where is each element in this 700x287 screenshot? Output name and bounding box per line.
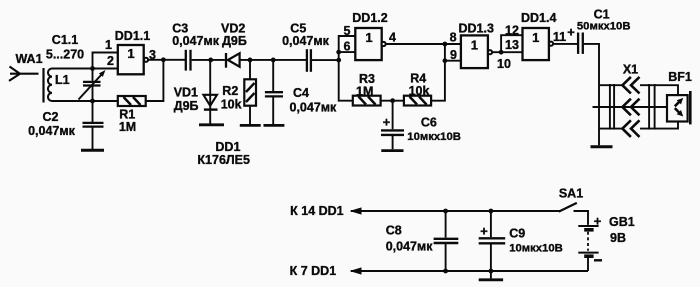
node C8 top	[443, 209, 448, 214]
capacitor C1	[578, 33, 583, 54]
node pin6	[336, 50, 341, 55]
svg-text:1М: 1М	[119, 120, 136, 134]
op-amp gate DD1.4	[523, 28, 554, 60]
arrow K7	[350, 267, 362, 274]
resistor R1	[118, 96, 146, 106]
X1 bars right	[648, 84, 650, 130]
ground below C2	[81, 149, 104, 152]
wire tank bottom	[52, 100, 118, 102]
svg-text:11: 11	[553, 30, 566, 44]
node C4 tap	[271, 58, 276, 63]
ferrite rod of L1	[42, 68, 44, 103]
resistor R3	[353, 96, 381, 106]
wire R3 to R4	[381, 100, 404, 102]
node pin13	[499, 50, 504, 55]
wire DD1.4 output	[553, 43, 577, 45]
power rail top	[351, 210, 560, 212]
op-amp gate DD1.3	[461, 35, 492, 68]
power rail bottom	[351, 270, 588, 272]
wire pin8	[445, 43, 461, 45]
wire C5 to DD1.2	[312, 59, 339, 61]
svg-text:R2: R2	[222, 84, 238, 98]
svg-text:0,047мк: 0,047мк	[290, 101, 338, 115]
wire pin1 riser	[93, 53, 118, 69]
X1 bars left	[609, 84, 611, 130]
wire X1 row top right	[640, 85, 678, 95]
svg-text:К176ЛЕ5: К176ЛЕ5	[197, 153, 250, 167]
svg-text:1М: 1М	[356, 85, 373, 99]
svg-text:4: 4	[389, 30, 396, 44]
svg-text:C4: C4	[293, 86, 309, 100]
battery GB1	[578, 226, 598, 271]
svg-text:1: 1	[532, 30, 539, 45]
op-amp gate DD1.2	[355, 28, 385, 60]
wire X1 row bottom right	[640, 122, 678, 129]
svg-text:0,047мк: 0,047мк	[282, 34, 330, 48]
capacitor C4	[265, 60, 283, 124]
wire riser down	[92, 69, 94, 81]
switch SA1	[559, 203, 588, 225]
node VD1 tap	[208, 58, 213, 63]
wire R4 right riser	[431, 44, 445, 101]
svg-text:50мкх10В: 50мкх10В	[577, 21, 631, 33]
wire VD2 to C5	[240, 59, 306, 61]
diode VD1	[203, 60, 217, 124]
svg-text:+: +	[383, 115, 391, 130]
wire pin9	[445, 60, 461, 62]
X1 chevrons top	[622, 77, 639, 94]
svg-text:C6: C6	[421, 116, 437, 130]
svg-text:C2: C2	[43, 110, 59, 124]
capacitor C6	[381, 101, 404, 150]
svg-text:DD1: DD1	[215, 140, 240, 154]
node C9 top	[489, 209, 494, 214]
wire pin2	[93, 68, 118, 70]
wire DD1.3 output	[492, 51, 522, 53]
svg-text:12: 12	[505, 23, 519, 37]
node C6 tap	[390, 98, 395, 103]
svg-text:C1: C1	[594, 8, 610, 22]
svg-text:10мкх10В: 10мкх10В	[407, 131, 461, 143]
svg-text:2: 2	[107, 54, 114, 68]
X1 chevrons bottom	[622, 120, 639, 137]
resistor R4	[404, 96, 431, 106]
diode VD2	[226, 53, 240, 68]
capacitor C5	[307, 49, 311, 72]
svg-text:DD1.2: DD1.2	[352, 11, 387, 25]
svg-text:К 7 DD1: К 7 DD1	[290, 264, 337, 278]
node output DD1.1	[161, 57, 166, 62]
svg-text:5...270: 5...270	[46, 47, 84, 61]
wire C2 to ground	[92, 127, 94, 149]
svg-text:5: 5	[344, 24, 351, 38]
ground below C6	[381, 149, 403, 152]
wire pin 6	[339, 51, 356, 53]
svg-text:9: 9	[450, 48, 457, 62]
ground below C9	[479, 278, 503, 281]
svg-text:9В: 9В	[610, 231, 626, 245]
svg-text:1: 1	[105, 38, 112, 52]
svg-text:8: 8	[450, 31, 457, 45]
wire R1 right to output node	[146, 60, 164, 101]
svg-text:10: 10	[497, 57, 511, 71]
svg-text:X1: X1	[623, 63, 638, 77]
capacitor C8	[434, 211, 459, 271]
node pin9	[443, 58, 448, 63]
svg-text:BF1: BF1	[668, 70, 692, 84]
ground below X1	[591, 145, 613, 148]
svg-text:C8: C8	[386, 224, 402, 238]
svg-text:+: +	[594, 214, 602, 229]
wire riser mid	[92, 86, 94, 102]
wire DD1.2 input riser	[339, 36, 356, 101]
wire X1 row top left	[599, 84, 622, 86]
svg-text:13: 13	[505, 38, 519, 52]
svg-text:1: 1	[471, 37, 478, 52]
svg-text:VD1: VD1	[174, 86, 198, 100]
wire X1 row mid	[593, 106, 668, 108]
svg-text:0,047мк: 0,047мк	[28, 124, 76, 138]
wire tank top	[52, 68, 93, 70]
earphone BF1	[667, 91, 690, 124]
wire C1 to X1	[584, 44, 599, 145]
wire to C2	[92, 101, 94, 122]
wire C3 to VD2	[192, 59, 225, 61]
svg-text:0,047мк: 0,047мк	[386, 240, 434, 254]
capacitor C9	[479, 211, 506, 278]
X1 chevrons mid	[622, 99, 639, 116]
svg-text:+: +	[567, 25, 575, 40]
svg-text:WA1: WA1	[15, 52, 42, 66]
svg-text:L1: L1	[55, 73, 70, 87]
arrow K14	[350, 207, 362, 214]
svg-text:10мкх10В: 10мкх10В	[509, 243, 563, 255]
svg-text:DD1.4: DD1.4	[521, 11, 556, 25]
svg-text:GB1: GB1	[609, 215, 635, 229]
wire X1 row bottom left	[599, 128, 622, 130]
resistor R2	[244, 60, 256, 124]
minus GB1	[594, 259, 602, 261]
wire DD1.1 output	[148, 59, 185, 61]
node tank top	[90, 66, 95, 71]
capacitor C2	[83, 123, 104, 127]
svg-text:+: +	[480, 223, 488, 238]
svg-text:C9: C9	[509, 226, 525, 240]
capacitor C3	[186, 50, 191, 71]
antenna WA1	[9, 67, 39, 81]
svg-text:C1.1: C1.1	[52, 33, 78, 47]
svg-text:0,047мк: 0,047мк	[172, 34, 220, 48]
svg-text:Д9Б: Д9Б	[222, 34, 247, 48]
op-amp gate DD1.1	[118, 45, 148, 74]
node tank bottom	[90, 99, 95, 104]
svg-text:Д9Б: Д9Б	[174, 99, 199, 113]
node R2 tap	[248, 58, 253, 63]
svg-text:6: 6	[344, 40, 351, 54]
node C9 bottom	[489, 269, 494, 274]
svg-text:10k: 10k	[221, 98, 242, 112]
ground below VD1	[199, 123, 224, 126]
svg-text:1: 1	[127, 46, 134, 61]
svg-text:DD1.3: DD1.3	[458, 22, 493, 36]
svg-text:1: 1	[365, 30, 372, 45]
node pin8	[443, 42, 448, 47]
svg-text:SA1: SA1	[559, 186, 583, 200]
ground below R2	[240, 124, 261, 127]
wire pin12 riser	[501, 35, 522, 52]
svg-text:10k: 10k	[409, 84, 430, 98]
svg-text:К 14 DD1: К 14 DD1	[290, 204, 344, 218]
wire DD1.2 output	[386, 43, 445, 45]
inductor L1	[48, 69, 52, 102]
connector X1	[593, 77, 679, 137]
svg-text:DD1.1: DD1.1	[115, 29, 150, 43]
capacitor C1.1 variable	[79, 70, 106, 100]
node main C5	[336, 58, 341, 63]
ground below C4	[264, 124, 285, 127]
node C8 bottom	[443, 269, 448, 274]
